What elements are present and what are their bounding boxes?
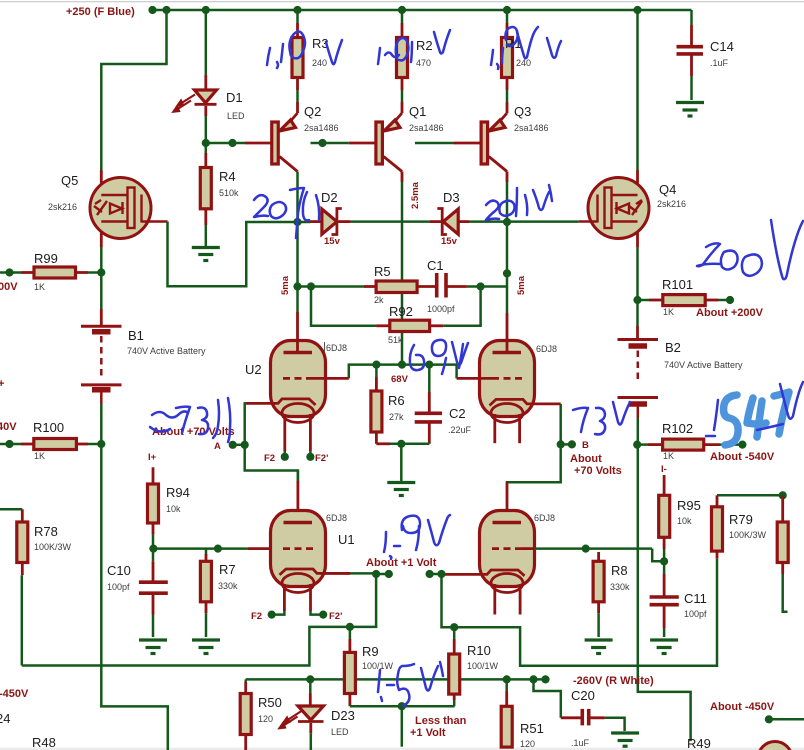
wire Q3 collector column — [506, 172, 509, 183]
svg-text:F2': F2' — [329, 611, 342, 622]
resistor R1 — [506, 10, 509, 23]
wire R9 bottom row — [350, 705, 455, 708]
wire About+1V left route to R78 and R9 — [22, 574, 376, 666]
handwritten ink 69V — [410, 345, 424, 370]
resistor R4 — [200, 168, 211, 209]
resistor R9 — [349, 627, 352, 639]
svg-text:Q2: Q2 — [304, 104, 321, 119]
resistor R101 — [638, 299, 650, 302]
svg-text:C1: C1 — [427, 258, 444, 273]
ground under R4 — [192, 248, 220, 261]
handwritten ink 200V right — [697, 243, 721, 266]
svg-text:330k: 330k — [218, 581, 238, 591]
svg-text:Less than: Less than — [415, 715, 467, 727]
wire base row to Q2 — [206, 142, 245, 145]
svg-text:About +200V: About +200V — [696, 307, 764, 319]
svg-text:D3: D3 — [443, 190, 460, 205]
resistor R51 — [505, 679, 508, 691]
svg-text:R92: R92 — [389, 304, 413, 319]
wire About -450V stub — [765, 715, 773, 723]
wire D3 to Q4 gate node — [469, 220, 579, 223]
svg-text:R9: R9 — [362, 644, 379, 659]
svg-text:R2: R2 — [416, 38, 433, 53]
wire base row Q1-Q3 — [415, 142, 454, 145]
wire Q5 drain pass-through pin — [100, 170, 103, 247]
svg-text:510k: 510k — [219, 188, 239, 198]
value 6DJ8 — [324, 342, 326, 352]
svg-text:15v: 15v — [441, 236, 458, 247]
svg-text:6DJ8: 6DJ8 — [536, 344, 557, 354]
svg-text:2.5ma: 2.5ma — [410, 181, 421, 209]
svg-text:R100: R100 — [33, 420, 64, 435]
svg-text:1K: 1K — [34, 282, 45, 292]
svg-text:C14: C14 — [710, 39, 734, 54]
svg-text:B2: B2 — [665, 340, 681, 355]
svg-text:24: 24 — [0, 711, 10, 726]
svg-text:100/1W: 100/1W — [362, 661, 394, 671]
capacitor C1 — [435, 273, 439, 298]
svg-text:I+: I+ — [148, 452, 157, 463]
svg-text:1K: 1K — [663, 307, 674, 317]
svg-text:.1uF: .1uF — [710, 58, 729, 68]
wire to Q5 gate — [101, 10, 166, 170]
svg-text:2k: 2k — [374, 295, 384, 305]
svg-text:40V: 40V — [0, 421, 17, 433]
svg-text:R95: R95 — [677, 498, 701, 513]
svg-text:LED: LED — [331, 727, 349, 737]
tube U1 right half 6DJ8 — [507, 481, 561, 484]
wire D1 to base row — [204, 106, 207, 116]
tube arc bottom right — [758, 742, 792, 750]
junction dots on top rail — [162, 6, 170, 14]
tube U2 left half 6DJ8 — [271, 341, 326, 417]
svg-text:1000pf: 1000pf — [427, 304, 455, 314]
wire About+1V right route to R10 and R79 — [442, 559, 718, 666]
svg-text:F2': F2' — [315, 453, 328, 464]
svg-text:100K/3W: 100K/3W — [34, 542, 72, 552]
resistor R8 — [597, 552, 600, 561]
wire R6/C2 bottom node — [390, 443, 429, 446]
svg-text:U1: U1 — [338, 532, 355, 547]
svg-text:15v: 15v — [324, 236, 341, 247]
resistor R79 — [716, 495, 719, 507]
wire D1 branch — [205, 10, 208, 75]
svg-text:C10: C10 — [107, 563, 131, 578]
svg-text:B1: B1 — [128, 328, 144, 343]
svg-text:120: 120 — [258, 714, 273, 724]
wire U1R cathode node — [426, 570, 434, 578]
svg-text:2sk216: 2sk216 — [657, 199, 686, 209]
svg-text:-450V: -450V — [0, 688, 29, 700]
svg-text:About -450V: About -450V — [710, 701, 775, 713]
svg-text:R79: R79 — [729, 512, 753, 527]
resistor R10 — [453, 627, 456, 639]
transistor Q1 2sa1486 — [401, 102, 404, 113]
svg-text:.22uF: .22uF — [448, 425, 472, 435]
svg-text:R101: R101 — [662, 277, 693, 292]
wire D2-D3 — [351, 220, 430, 223]
svg-text:6DJ8: 6DJ8 — [534, 513, 555, 523]
svg-text:D2: D2 — [321, 190, 338, 205]
svg-text:2sa1486: 2sa1486 — [304, 123, 339, 133]
svg-text:240: 240 — [312, 58, 327, 68]
svg-text:R10: R10 — [467, 643, 491, 658]
svg-text:100K/3W: 100K/3W — [729, 530, 767, 540]
handwritten ink 1.9V — [384, 532, 386, 552]
resistor R94 — [152, 467, 155, 484]
svg-text:100pf: 100pf — [684, 609, 707, 619]
handwritten ink 73V left — [152, 411, 188, 417]
svg-text:Q1: Q1 — [409, 104, 426, 119]
wire C1 to Q3 column — [467, 285, 507, 288]
svg-text:About +1 Volt: About +1 Volt — [366, 557, 437, 569]
wire base row Q2-Q1 — [311, 142, 349, 145]
ground under C11 — [650, 640, 678, 654]
handwritten ink -547V thick — [706, 435, 715, 438]
wire Q5 source to D2 row — [168, 222, 311, 287]
wire -260V row — [246, 678, 546, 681]
wire R92 right to C1 node — [443, 287, 480, 326]
svg-text:R50: R50 — [258, 695, 282, 710]
handwritten ink 1.1V over R1 — [491, 50, 493, 65]
svg-text:330k: 330k — [610, 582, 630, 592]
svg-text:1K: 1K — [663, 451, 674, 461]
wire U2L cathode to node A and U1L anode — [245, 403, 298, 481]
svg-text:5ma: 5ma — [280, 275, 291, 295]
resistor R6 — [375, 365, 378, 377]
LED D1 — [195, 90, 217, 103]
svg-text:About -540V: About -540V — [710, 451, 775, 463]
resistor right edge unlabeled — [781, 495, 784, 522]
capacitor C11 — [663, 561, 666, 574]
wire R92 branch left — [311, 287, 376, 326]
svg-text:R49: R49 — [687, 736, 711, 750]
svg-text:10k: 10k — [677, 516, 692, 526]
svg-text:R6: R6 — [388, 393, 405, 408]
wire top +250 rail — [153, 9, 692, 12]
node +250 end dot — [148, 6, 156, 14]
svg-text:R7: R7 — [219, 562, 236, 577]
ground under C20 — [611, 733, 639, 746]
wire R5 row left — [298, 285, 364, 288]
resistor R3 — [296, 10, 299, 23]
svg-text:100pf: 100pf — [107, 582, 130, 592]
resistor R92 — [376, 324, 390, 327]
capacitor C20 — [534, 679, 561, 717]
svg-text:Q3: Q3 — [514, 104, 531, 119]
ground under R7 — [192, 640, 220, 654]
transistor Q5 2sk216 body — [90, 178, 151, 239]
svg-text:R99: R99 — [34, 251, 58, 266]
bottom taskbar strip — [0, 748, 804, 750]
svg-text:5ma: 5ma — [516, 275, 527, 295]
svg-text:470: 470 — [416, 58, 431, 68]
resistor R5 — [364, 285, 377, 288]
ground under C14 — [676, 103, 704, 117]
ground under R8 — [585, 640, 613, 654]
svg-text:.1uF: .1uF — [571, 738, 590, 748]
svg-text:1K: 1K — [34, 451, 45, 461]
svg-text:10k: 10k — [166, 504, 181, 514]
handwritten ink 73V right — [573, 408, 588, 432]
handwritten ink 207V near D3 — [486, 201, 499, 220]
battery B1 — [81, 326, 122, 404]
svg-text:I-: I- — [661, 464, 667, 475]
svg-text:2sa1486: 2sa1486 — [409, 123, 444, 133]
svg-text:100/1W: 100/1W — [467, 661, 499, 671]
resistor R7 — [205, 549, 208, 554]
svg-text:B: B — [582, 440, 589, 451]
svg-text:R102: R102 — [662, 421, 693, 436]
svg-text:240: 240 — [516, 58, 531, 68]
resistor R2 — [401, 10, 404, 23]
svg-text:27k: 27k — [389, 412, 404, 422]
resistor R50 — [244, 679, 247, 682]
zener D2 15v — [310, 220, 322, 223]
wire B1 bottom long left column — [101, 404, 168, 750]
svg-text:U2: U2 — [245, 362, 262, 377]
capacitor C14 — [690, 10, 693, 25]
svg-text:R94: R94 — [166, 485, 190, 500]
svg-text:00V: 00V — [0, 281, 18, 293]
wire Q2 collector column — [296, 172, 299, 313]
transistor Q2 2sa1486 — [296, 102, 299, 113]
transistor Q3 2sa1486 — [506, 102, 509, 113]
svg-text:C2: C2 — [449, 406, 466, 421]
svg-text:6DJ8: 6DJ8 — [326, 343, 347, 353]
resistor R95 — [663, 475, 666, 495]
wire Q4 drain column — [636, 10, 639, 170]
svg-text:R48: R48 — [32, 735, 56, 750]
capacitor C10 — [152, 549, 155, 562]
svg-text:R4: R4 — [219, 169, 236, 184]
handwritten ink 207V near D2 — [254, 195, 268, 217]
svg-text:+: + — [0, 378, 4, 390]
svg-text:120: 120 — [520, 739, 535, 749]
transistor Q4 2sk216 — [588, 178, 649, 239]
svg-text:D23: D23 — [331, 708, 355, 723]
top window border line — [0, 1, 804, 2]
wire 69V row — [349, 365, 457, 379]
svg-text:6DJ8: 6DJ8 — [326, 513, 347, 523]
svg-text:F2: F2 — [264, 453, 275, 464]
svg-text:C20: C20 — [571, 688, 595, 703]
resistor R100 — [0, 443, 21, 446]
svg-text:R78: R78 — [34, 524, 58, 539]
svg-text:R8: R8 — [611, 563, 628, 578]
svg-text:LED: LED — [227, 111, 245, 121]
svg-text:2sk216: 2sk216 — [48, 202, 77, 212]
capacitor C2 — [428, 365, 431, 392]
wire U1L grid row — [153, 547, 247, 550]
tube U1 left half 6DJ8 — [297, 471, 300, 482]
svg-text:About: About — [570, 453, 602, 465]
svg-text:R5: R5 — [374, 264, 391, 279]
svg-text:51k: 51k — [388, 335, 403, 345]
svg-text:D1: D1 — [226, 90, 243, 105]
ground under R6 — [387, 483, 415, 496]
resistor R102 — [637, 443, 648, 446]
svg-text:-260V (R White): -260V (R White) — [573, 675, 654, 687]
wire U1L cathode node — [320, 572, 351, 575]
svg-text:+250 (F Blue): +250 (F Blue) — [66, 6, 135, 18]
wire B2 bottom column — [638, 418, 691, 741]
wire Q4 source to R101/B2 — [636, 247, 639, 326]
handwritten ink 1.5V — [378, 670, 380, 692]
tube U2 right half 6DJ8 — [480, 341, 535, 417]
svg-text:R51: R51 — [520, 721, 544, 736]
handwritten ink over R2 — [378, 48, 380, 64]
svg-text:+70 Volts: +70 Volts — [574, 465, 622, 477]
battery B2 — [618, 340, 659, 419]
svg-text:A: A — [214, 441, 221, 452]
wire U2R cathode to node B and U1R anode — [507, 404, 561, 482]
wire R79 top net — [717, 494, 783, 497]
zener D3 15v — [429, 220, 441, 223]
svg-text:C11: C11 — [684, 591, 707, 606]
svg-text:68V: 68V — [391, 374, 409, 385]
svg-text:740V Active Battery: 740V Active Battery — [664, 360, 743, 370]
resistor R78 — [0, 508, 22, 511]
svg-text:Q5: Q5 — [61, 173, 78, 188]
wire Q1 collector column — [401, 172, 404, 183]
LED D23 — [309, 679, 312, 693]
ground under C10 — [139, 640, 167, 654]
svg-text:2sa1486: 2sa1486 — [514, 123, 549, 133]
svg-text:Q4: Q4 — [659, 182, 676, 197]
svg-text:+1 Volt: +1 Volt — [410, 727, 446, 739]
wire R4 branch — [205, 143, 208, 153]
handwritten ink 1.1 over R3 — [267, 48, 270, 65]
svg-text:740V Active Battery: 740V Active Battery — [127, 346, 206, 356]
wire Q5 bottom to battery B1 — [100, 247, 103, 309]
svg-text:F2: F2 — [251, 611, 262, 622]
wire U1R grid row to R95/C11 — [535, 547, 653, 550]
resistor R99 — [0, 271, 21, 274]
